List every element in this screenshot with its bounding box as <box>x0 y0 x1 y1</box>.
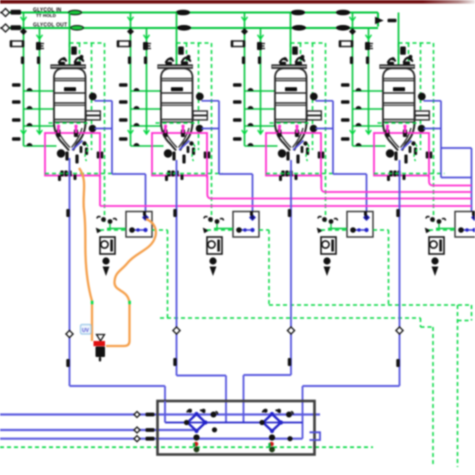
vessel 4 side nozzle <box>415 111 429 115</box>
vessel 2 ladder B arrow <box>144 35 150 39</box>
pump 1 lower arrow <box>103 267 108 275</box>
vessel 4 ladder bottom arrows <box>350 130 356 134</box>
vessel 3 center feed line <box>290 13 292 77</box>
valve box 3 <box>347 212 373 238</box>
vessel 4 inlet box glyph <box>400 47 406 55</box>
vessel 3 inlet box glyph <box>292 47 298 55</box>
pump box 1 bar <box>110 240 113 252</box>
supply tick y414 <box>146 413 155 417</box>
vessel 1 upper port circle <box>89 93 97 101</box>
rotary valve 2 left blob <box>259 420 264 425</box>
vessel 3 discharge bottom ticks <box>281 171 284 177</box>
vessel 2 transfer drop <box>176 160 178 376</box>
vessel 4 inlet dashed left <box>398 43 400 66</box>
dashed bus y327 <box>421 326 434 328</box>
vessel 1 ladder stub y146 <box>24 145 57 147</box>
pump box 2 <box>207 237 222 254</box>
vessel 2 discharge dashed bottom <box>152 173 223 175</box>
vessel 2 ladder A tick <box>128 57 131 65</box>
vessel 4 discharge box magenta <box>374 133 429 176</box>
vessel 4 upper port circle <box>418 93 426 101</box>
vessel 3 ladder A node diamond <box>242 29 247 34</box>
vessel 3 cone blue branch <box>293 141 304 151</box>
dashed jog x420 <box>420 318 422 327</box>
vessel 4 center feed line <box>398 13 400 77</box>
rotary valve 1 bottom dot <box>194 447 200 453</box>
svg-text:GLYCOL OUT: GLYCOL OUT <box>33 23 67 29</box>
vessel 2 magenta ticks <box>164 125 166 133</box>
pump cluster 1 valves <box>101 217 106 222</box>
vessel 3 inlet dashed mid <box>300 43 302 66</box>
vessel 2 discharge bottom ticks <box>167 171 170 177</box>
vessel 1 cone bottom valve circle <box>57 149 65 157</box>
vessel 3 band lines <box>275 78 307 80</box>
vessel 2 ladder B valve glyph <box>143 42 148 50</box>
vessel 2 ladder vertical B <box>146 28 148 134</box>
valve box 1 <box>126 212 152 238</box>
vessel 1 ladder far-left ticks <box>12 83 21 87</box>
line1 button 4 <box>337 10 350 15</box>
vessel 3 ladder A arrow <box>242 17 248 21</box>
dashed bus y318 <box>160 317 421 319</box>
vessel 2 ladder A node diamond <box>128 29 133 34</box>
magenta bus y206 <box>100 205 472 207</box>
vessel 1 ladder vertical A <box>23 13 25 147</box>
dashed bus y305 <box>269 304 472 306</box>
vessel 4 cone top black ticks <box>385 130 389 138</box>
vessel 1 double bars <box>97 152 100 159</box>
vessel 1 side nozzle <box>86 111 100 115</box>
vessel 4 ladder B valve glyph <box>365 42 370 50</box>
valve box 3 internals <box>352 229 367 231</box>
vessel 1 ladder A valve <box>11 41 23 47</box>
manifold entry v165 marker <box>164 401 166 423</box>
hose junction green ticks <box>91 301 94 304</box>
pump box 4 impeller circle <box>430 241 437 248</box>
vessel 1 transfer drop <box>69 158 71 386</box>
glycol supply header line 1 <box>8 12 378 14</box>
vessel 2 body <box>161 68 193 124</box>
magenta bus y192 from vessel3 <box>321 176 471 193</box>
manifold box <box>158 401 315 455</box>
pump box 1 impeller circle <box>101 241 108 248</box>
vessel 4 ladder A valve <box>340 41 352 47</box>
vessel 2 upper port circle <box>196 93 204 101</box>
line 1 source tag <box>11 10 22 15</box>
vessel 2 ladder stub y146 <box>131 145 164 147</box>
vessel 1 inlet dashed left <box>69 43 71 66</box>
vessel 4 transfer drop <box>399 160 401 386</box>
pump box 4 <box>429 237 444 254</box>
vessel 1 ladder A node diamond <box>21 29 26 34</box>
pump cluster 2 link <box>214 228 233 230</box>
vessel 3 ladder A tick <box>242 57 245 65</box>
vessel 1 transfer diamond <box>66 330 73 337</box>
glycol return header line 2 <box>8 27 378 29</box>
vessel 1 magenta drop stub <box>99 176 101 179</box>
vessel 2 magenta drop stub <box>206 176 208 179</box>
vessel 1 cone bottom valve bars <box>65 152 68 161</box>
vessel 2 transfer diamond <box>173 327 180 334</box>
flex hose B from valve box 1 <box>106 219 156 346</box>
supply diamond y414 <box>134 412 140 418</box>
svg-text:TT HOLD: TT HOLD <box>36 13 57 18</box>
rotary valve 2 red dot <box>269 442 274 447</box>
rotary valve 1 side blob <box>212 427 217 432</box>
vessel 3 transfer elbow <box>244 374 292 376</box>
pump cluster 4 valves <box>430 217 435 222</box>
vessel 4 top actuator right <box>403 61 410 65</box>
dashed link 3 right of valve box <box>373 229 389 231</box>
magenta bus riser v1 <box>99 176 101 207</box>
hose station tag <box>81 325 92 335</box>
supply tick y438 <box>146 437 155 441</box>
vessel 1 discharge dashed bottom <box>45 173 116 175</box>
vessel 3 ladder A valve <box>232 41 244 47</box>
line2 button 4 <box>337 26 350 31</box>
vessel 1 cone <box>54 124 86 151</box>
vessel 2 vent line to valve box <box>202 100 220 102</box>
vessel 2 cone dashed line <box>156 122 198 124</box>
vessel 1 cone dashed line <box>49 122 91 124</box>
vessel 4 inlet dashed box top <box>399 42 434 44</box>
vessel 3 ladder stub y91 <box>245 90 275 92</box>
supply tick y430 <box>146 428 155 432</box>
vessel 2 inlet dashed mid <box>186 43 188 66</box>
vessel 3 ladder B tick <box>258 57 261 65</box>
pump cluster 3 link <box>328 228 347 230</box>
magenta bus y185 from vessel4 <box>429 176 472 186</box>
hose station valve body <box>96 347 106 358</box>
vessel 4 body <box>383 68 415 124</box>
dashed drop column1 <box>167 230 169 318</box>
vessel 3 ladder stub y109 <box>245 108 275 110</box>
vessel 3 cone <box>275 124 307 151</box>
vessel 3 sensor dashed wiggle <box>306 144 309 161</box>
pump box 4 bar <box>439 240 442 252</box>
dashed link 2 left of valve box <box>207 229 233 231</box>
pump box 3 bar <box>331 240 334 252</box>
vessel 4 cone dashed line <box>378 122 420 124</box>
vessel 1 name label <box>64 87 76 91</box>
manifold stub rect right <box>310 432 321 440</box>
valve box 4 entry tick <box>472 211 475 216</box>
pump cluster 4 link <box>436 228 455 230</box>
vessel 1 transfer elbow <box>70 385 166 387</box>
vessel 4 sensor dashed wiggle <box>414 144 417 161</box>
vessel 2 cone <box>161 124 193 151</box>
rotary valve 2 actuator curls <box>263 410 268 413</box>
vessel 4 ladder B arrow <box>366 35 372 39</box>
vessel 4 name label <box>393 87 405 91</box>
vessel 4 inlet dashed v2 <box>420 43 422 150</box>
pump box 1 <box>100 237 115 254</box>
svg-text:UV: UV <box>82 328 90 334</box>
vessel 1 ladder vertical B <box>39 28 41 134</box>
vessel 3 upper port circle <box>310 93 318 101</box>
vessel 4 top actuator left <box>388 62 395 65</box>
pump 4 lower arrow <box>432 267 437 275</box>
pump box 3 <box>321 237 336 254</box>
vessel 1 inlet dashed box top <box>70 42 105 44</box>
vessel 4 ladder A node diamond <box>350 29 355 34</box>
vessel 2 cone blue branch <box>179 141 190 151</box>
pump cluster 1 link <box>107 228 126 230</box>
rotary valve 2 side blob <box>287 436 292 441</box>
vessel 2 top actuator right <box>181 61 188 65</box>
vessel 2 sensor dashed wiggle <box>192 144 195 161</box>
vessel 3 ladder bottom arrows <box>242 130 248 134</box>
pump 3 lower arrow <box>324 267 329 275</box>
vessel 2 double bars <box>204 152 207 159</box>
pump cluster 2 valves <box>208 217 213 222</box>
supply diamond y438 <box>134 436 140 442</box>
dashed link 1 right of valve box <box>152 229 168 231</box>
vessel 3 transfer diamond <box>287 327 294 334</box>
vessel 2 inlet dashed box top <box>177 42 212 44</box>
vessel 2 ladder stub y109 <box>131 108 161 110</box>
pump box 2 bar <box>217 240 220 252</box>
rotary valve 1 diamond <box>188 414 206 431</box>
vessel 1 ladder bottom arrows <box>21 130 27 134</box>
rotary valve 1 lower circle <box>193 434 199 440</box>
vessel 4 ladder far-left ticks <box>341 83 350 87</box>
vessel 1 top flange <box>51 65 85 68</box>
vessel 3 inlet dashed right drop <box>325 43 327 222</box>
vessel 2 ladder stub y91 <box>131 90 161 92</box>
valve box 4 internals <box>460 229 475 231</box>
vessel 3 inlet dashed left <box>290 43 292 66</box>
vessel 3 magenta drop stub <box>320 176 322 179</box>
vessel 1 inlet dashed right drop <box>104 43 106 222</box>
vessel 1 ladder B tick <box>37 57 40 65</box>
vessel 2 ladder bottom arrows <box>128 130 134 134</box>
vessel 4 cone blue branch <box>401 141 412 151</box>
vessel 1 ladder A tick <box>21 57 24 65</box>
vessel 4 cone bottom valve bars <box>394 152 397 161</box>
vessel 2 inlet dashed right drop <box>211 43 213 222</box>
vessel 2 name label <box>171 87 183 91</box>
valve box 2 internals <box>238 229 253 231</box>
supply line B <box>0 429 197 431</box>
dashed drop x433 <box>432 327 434 467</box>
vessel 1 vent line to valve box <box>95 100 113 102</box>
vessel 1 center feed line <box>69 13 71 77</box>
valve box 4 <box>455 212 475 238</box>
rotary valve 1 red dot <box>194 442 199 447</box>
vessel 4 top flange <box>380 65 414 68</box>
dashed bus y320 <box>458 320 472 322</box>
vessel 4 vent line to valve box <box>424 100 442 102</box>
line1 button 2 <box>177 10 190 15</box>
vessel 3 discharge dashed bottom <box>266 173 337 175</box>
vessel 4 ladder stub y146 <box>353 145 386 147</box>
vessel 1 cone top black ticks <box>56 130 60 138</box>
vessel 3 ladder stub y126 <box>245 125 275 127</box>
vessel 2 feed end dot <box>174 75 179 80</box>
line2 button 3 <box>293 26 306 31</box>
vessel 4 feed end dot <box>396 75 401 80</box>
vessel 1 discharge box magenta <box>45 133 100 176</box>
line1 button 1 <box>69 10 82 15</box>
vessel 3 cone bottom valve circle <box>278 149 286 157</box>
vessel 3 top flange <box>272 65 306 68</box>
vessel 1 inlet dashed v2 <box>91 43 93 150</box>
vessel 4 transfer elbow <box>303 385 400 387</box>
rotary valve 2 green tick <box>268 443 270 447</box>
vessel 2 ladder stub y126 <box>131 125 161 127</box>
vessel 1 inlet box glyph <box>71 47 77 55</box>
header right arrow <box>376 18 383 24</box>
vessel 4 band lines <box>383 78 415 80</box>
vessel 3 vent line to valve box <box>316 100 334 102</box>
vessel 4 ladder stub y109 <box>353 108 383 110</box>
vessel 1 ladder stub y109 <box>24 108 54 110</box>
vessel 3 magenta ticks <box>278 125 280 133</box>
vessel 2 ladder A valve <box>118 41 130 47</box>
dashed drop column3 <box>388 230 390 305</box>
vessel 3 ladder stub y146 <box>245 145 278 147</box>
dashed drop column2 <box>268 230 270 305</box>
vessel 2 inlet dashed v2 <box>198 43 200 150</box>
vessel 3 feed end dot <box>288 75 293 80</box>
dashed link 3 left of valve box <box>321 229 347 231</box>
pump 1 lower circle <box>102 257 109 264</box>
vessel 3 ladder far-left ticks <box>233 83 242 87</box>
supply line C <box>0 438 303 440</box>
vessel 2 cone top black ticks <box>163 130 167 138</box>
vessel 2 transfer elbow <box>177 375 227 377</box>
valve box 1 entry tick <box>143 211 146 216</box>
line1 button 3 <box>292 10 305 15</box>
dashed drop x457 <box>457 305 459 467</box>
vessel 4 discharge bottom ticks <box>389 171 392 177</box>
rotary valve 1 actuator curls <box>187 410 192 413</box>
dashed link 1 left of valve box <box>100 229 126 231</box>
line2 button 2 <box>178 26 191 31</box>
vessel 4 lower port circle <box>418 125 426 133</box>
vessel 2 inlet dashed left <box>176 43 178 66</box>
rotary valve 2 right blob <box>286 412 292 418</box>
rotary valve 2 lower circle <box>269 434 275 440</box>
vessel 1 magenta ticks <box>57 125 59 133</box>
vessel 4 cone bottom valve circle <box>386 149 394 157</box>
vessel 2 cone bottom valve bars <box>172 152 175 161</box>
line 2 source diamond <box>0 27 9 29</box>
vessel 2 band lines <box>161 78 193 80</box>
vessel 2 top actuator left <box>166 62 173 65</box>
vessel 1 ladder stub y91 <box>24 90 54 92</box>
vessel 3 discharge box magenta <box>266 133 321 176</box>
vessel 1 feed end dot <box>67 75 72 80</box>
rotary valve 2 diamond <box>263 414 281 431</box>
vessel 1 discharge bottom ticks <box>60 171 63 177</box>
pump box 2 impeller circle <box>208 241 215 248</box>
line 2 source tag <box>11 25 22 30</box>
vessel 1 ladder B valve glyph <box>36 42 41 50</box>
header end tick <box>388 19 397 23</box>
vessel 3 lower port circle <box>310 125 318 133</box>
vessel 4 inlet dashed mid <box>408 43 410 66</box>
pump cluster 3 valves <box>322 217 327 222</box>
dashed link 2 right of valve box <box>259 229 269 231</box>
vessel 3 ladder B arrow <box>258 35 264 39</box>
vessel 2 ladder vertical A <box>130 13 132 147</box>
vessel 1 body <box>54 68 86 124</box>
vessel 4 double bars <box>426 152 429 159</box>
dashed bottom bus <box>0 446 373 448</box>
vessel 2 ladder B tick <box>144 57 147 65</box>
valve box 1 internals <box>131 229 146 231</box>
vessel 3 body <box>275 68 307 124</box>
vessel 4 ladder A arrow <box>350 17 356 21</box>
vessel 1 band lines <box>54 78 86 80</box>
vessel 1 lower port circle <box>89 125 97 133</box>
vessel 3 ladder B valve glyph <box>257 42 262 50</box>
pump 4 lower circle <box>431 257 438 264</box>
vessel 1 ladder B arrow <box>37 35 43 39</box>
valve box 2 <box>233 212 259 238</box>
vessel 4 ladder vertical A <box>352 13 354 147</box>
vessel 1 inlet dashed mid <box>79 43 81 66</box>
vessel 4 transfer diamond <box>396 327 403 334</box>
vessel 1 ladder A arrow <box>21 17 27 21</box>
line 1 source diamond <box>0 12 9 14</box>
vessel 1 cone blue branch <box>72 141 83 151</box>
vessel 2 discharge box magenta <box>152 133 207 176</box>
header right end loop <box>377 13 379 27</box>
pump box 3 impeller circle <box>322 241 329 248</box>
vessel 3 cone top black ticks <box>277 130 281 138</box>
rotary valve 2 bottom dot <box>269 447 275 453</box>
vessel 3 cone dashed line <box>270 122 312 124</box>
vessel 1 top actuator left <box>59 62 66 65</box>
vessel 4 cone <box>383 124 415 151</box>
vessel 3 inlet dashed v2 <box>312 43 314 150</box>
vessel 4 ladder B tick <box>366 57 369 65</box>
vessel 4 ladder stub y126 <box>353 125 383 127</box>
vessel 2 top flange <box>158 65 192 68</box>
title bar <box>0 0 475 4</box>
vessel 3 top actuator right <box>295 61 302 65</box>
vessel 3 side nozzle <box>307 111 321 115</box>
vessel 4 magenta ticks <box>386 125 388 133</box>
vessel 1 ladder stub y126 <box>24 125 54 127</box>
rotary valve 1 green tick <box>193 443 195 447</box>
vessel 3 double bars <box>318 152 321 159</box>
hose station red coupling <box>94 341 106 346</box>
rotary valve 1 left blob <box>184 420 189 425</box>
vessel 4 ladder stub y91 <box>353 90 383 92</box>
vessel 1 top actuator right <box>74 61 81 65</box>
pump 3 lower circle <box>323 257 330 264</box>
valve box 3 entry tick <box>364 211 367 216</box>
vessel 2 lower port circle <box>196 125 204 133</box>
dashed link 4 left of valve box <box>429 229 455 231</box>
valve box 2 entry tick <box>250 211 253 216</box>
vessel 3 inlet dashed box top <box>291 42 326 44</box>
vessel 2 inlet box glyph <box>178 47 184 55</box>
vessel 4 inlet dashed right drop <box>433 43 435 222</box>
vessel 2 side nozzle <box>193 111 207 115</box>
dashed right edge drop <box>471 305 473 321</box>
vessel 2 center feed line <box>176 13 178 77</box>
vessel 2 cone bottom valve circle <box>164 149 172 157</box>
vessel 3 ladder vertical B <box>260 28 262 134</box>
vessel 3 ladder vertical A <box>244 13 246 147</box>
hose station triangle <box>97 335 105 342</box>
supply diamond y430 <box>134 427 140 433</box>
